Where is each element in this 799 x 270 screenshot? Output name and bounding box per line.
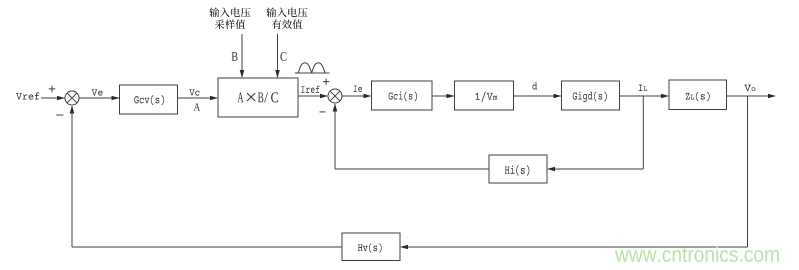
arrowhead up into sum2 [333, 104, 338, 112]
arrowhead into multiplier [210, 96, 218, 101]
arrowhead into Hi right side [547, 167, 555, 172]
plus sign at sum1 [49, 86, 56, 93]
arrowhead B into multiplier top [240, 70, 245, 78]
watermark www.cntronics.com [615, 246, 779, 262]
label Ve [92, 89, 103, 95]
wire sum2 to Gci [342, 95, 371, 97]
label C node [280, 52, 286, 61]
plus sign at sum2 [323, 79, 329, 85]
summing junction 1 (voltage error) [65, 91, 79, 105]
block label 1/Vm [475, 92, 497, 102]
wire Hi to sum2 horizontal [335, 168, 489, 170]
wire sum1 to Gcv [79, 97, 119, 99]
wire C input arrow [277, 34, 279, 77]
label Vc [189, 89, 199, 95]
label Vo output [744, 85, 755, 91]
wire sum2 feedback up [334, 104, 336, 169]
arrowhead output Vo [768, 94, 776, 99]
minus sign at sum1 [56, 114, 63, 116]
label Chinese: input voltage sampled value (over B) [209, 7, 250, 29]
arrowhead into ZL [661, 94, 669, 99]
rectified sine waveform symbol [295, 63, 330, 73]
summing junction 2 (current error) [328, 89, 342, 103]
block Gcv(s) [120, 85, 178, 114]
block Gigd(s) [562, 81, 620, 110]
arrowhead C into multiplier top [275, 70, 280, 78]
wire multiplier to sum2 [298, 95, 327, 97]
wire Gcv to multiplier [178, 97, 218, 99]
block 1/Vm [455, 81, 514, 110]
label Iref [301, 86, 319, 93]
label Ie [354, 86, 362, 92]
block ZL(s) [669, 80, 727, 110]
block Hv(s) [342, 233, 400, 261]
wire Vref to sum1 [41, 97, 65, 99]
block label ZL(s) [686, 92, 710, 102]
label A node [194, 103, 200, 111]
block label Gcv(s) [134, 95, 164, 105]
label Vref [16, 92, 39, 99]
minus sign at sum2 [320, 111, 326, 113]
block label Gigd(s) [573, 91, 607, 101]
wire Gci to 1/Vm [432, 95, 454, 97]
arrowhead into Gci [364, 94, 372, 99]
arrowhead into Gcv [112, 96, 120, 101]
wire Gigd to ZL with IL node [620, 95, 669, 97]
block label Gci(s) [389, 91, 417, 101]
block label Hi(s) [505, 165, 529, 176]
arrowhead into Gigd [554, 94, 562, 99]
arrowhead into 1/Vm [447, 94, 455, 99]
label B node [232, 52, 238, 61]
block label Hv(s) [358, 243, 382, 253]
wire Vo branch down [747, 96, 749, 247]
wire 1/Vm to Gigd [514, 95, 561, 97]
wire Vo feedback to Hv [401, 246, 748, 248]
label Chinese: input voltage RMS value (over C) [266, 7, 307, 29]
arrowhead into sum1 [57, 96, 65, 101]
wire sum1 feedback up [71, 106, 73, 247]
wire B input arrow [241, 34, 243, 77]
block Gci(s) [372, 81, 433, 110]
block label A times B/C [237, 92, 278, 102]
wire Hv to sum1 horizontal [72, 246, 342, 248]
arrowhead into sum2 [320, 94, 328, 99]
wire IL feedback to Hi [548, 168, 643, 170]
label d node [532, 82, 537, 89]
wire IL branch down [642, 96, 644, 169]
arrowhead into Hv right side [400, 245, 408, 250]
block multiplier A&#215;B/C [218, 78, 298, 117]
label IL node [639, 85, 647, 91]
block Hi(s) [489, 155, 547, 183]
wire ZL to output Vo [727, 95, 776, 97]
arrowhead up into sum1 [70, 106, 75, 114]
